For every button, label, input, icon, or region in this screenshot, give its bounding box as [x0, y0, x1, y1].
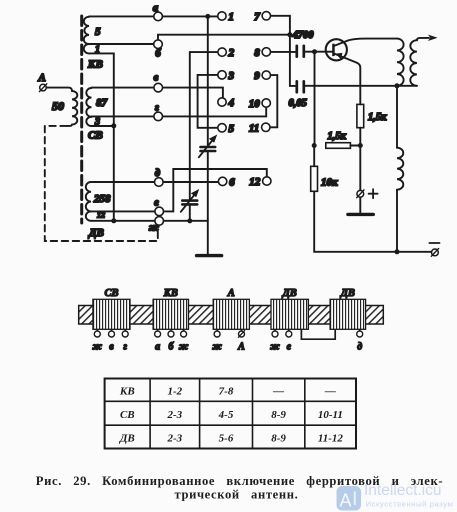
lead д of coil ДВ [357, 329, 363, 352]
svg-text:A: A [340, 491, 352, 511]
antenna terminal A [37, 72, 46, 92]
svg-text:11: 11 [249, 122, 259, 134]
coil SV section 3 [86, 117, 100, 128]
svg-text:5: 5 [229, 123, 235, 135]
wire: C0.05 to transformer bottom rail [305, 85, 417, 87]
switch contact 12 [249, 176, 271, 188]
svg-text:г: г [155, 103, 159, 114]
svg-text:7-8: 7-8 [219, 386, 234, 398]
junction node (397,85.8) [395, 83, 400, 88]
svg-text:трической антенн.: трической антенн. [175, 487, 299, 501]
switch contact а [153, 3, 163, 21]
switching table [105, 379, 356, 449]
choke coil on minus rail [397, 148, 403, 190]
svg-text:1,5к: 1,5к [328, 131, 347, 142]
svg-text:А: А [37, 72, 45, 84]
switch contact б [154, 40, 163, 60]
lead ж of coil А [212, 329, 222, 352]
transformer secondary coil [410, 40, 417, 86]
svg-text:д: д [357, 342, 362, 353]
switch contact д [155, 168, 164, 186]
wire: KV bottom down common vertical [89, 53, 114, 220]
junction node (189.8,220.9) [187, 218, 192, 223]
svg-text:А: А [237, 342, 245, 353]
junction node (314.5,51.7) [312, 49, 317, 54]
switch contact 11 [249, 122, 270, 134]
svg-text:4700: 4700 [292, 30, 315, 41]
svg-text:в: в [154, 73, 159, 84]
switch contact 8 [254, 47, 270, 59]
svg-text:е: е [154, 198, 159, 209]
wire: contact 7 right and down to C 0.05 [271, 16, 296, 86]
switch contact 6 [218, 176, 235, 188]
svg-text:СВ: СВ [104, 288, 118, 299]
svg-text:е: е [287, 342, 292, 353]
wire: DV bottom / contact zh line to ground vertical [91, 220, 208, 222]
svg-text:ДВ: ДВ [88, 227, 104, 239]
capacitor 4700 [292, 30, 315, 57]
svg-text:в: в [109, 342, 114, 353]
svg-text:—: — [272, 386, 284, 398]
svg-text:д: д [155, 168, 160, 179]
svg-text:КВ: КВ [163, 288, 178, 299]
trimmer C1 arrow [199, 135, 217, 158]
switch contact 7 [254, 11, 270, 23]
svg-text:3: 3 [228, 70, 235, 82]
plus terminal with ground [348, 189, 378, 214]
svg-text:11-12: 11-12 [318, 433, 344, 445]
svg-text:СВ: СВ [120, 409, 135, 421]
resistor 10k [311, 166, 338, 191]
minus terminal [429, 243, 439, 256]
wire: 1.5k to emitter vertical [350, 145, 360, 147]
svg-text:12: 12 [249, 176, 261, 188]
svg-text:г: г [123, 342, 127, 353]
switch contact 1 [218, 11, 234, 23]
svg-text:10: 10 [249, 98, 261, 110]
wire: contact a junction down to trimmer C1 [207, 16, 209, 147]
junction node (289.9,34.7) [287, 32, 292, 37]
wire: DV tap to contact e, up to contact 12 [91, 169, 267, 211]
watermark logo [337, 486, 362, 511]
svg-text:0,05: 0,05 [289, 98, 307, 109]
svg-text:КВ: КВ [119, 386, 135, 398]
wire: 10k bottom to minus rail [314, 191, 431, 252]
coil DV section 258 [86, 182, 111, 211]
coil KV section 1 [84, 44, 100, 56]
lead в of coil СВ [109, 329, 115, 352]
choke to minus rail [396, 190, 398, 252]
svg-text:ж: ж [179, 342, 189, 353]
svg-text:А: А [227, 288, 235, 299]
transformer primary coil [397, 39, 404, 86]
dashed link: coil 50 to contact zh (external antenna circuit) [45, 126, 158, 241]
rod coil КВ (winding block) [153, 288, 188, 329]
switch contact 4 [218, 97, 235, 109]
svg-text:7: 7 [254, 11, 260, 23]
lead ж of coil ДВ [270, 329, 280, 352]
svg-text:87: 87 [96, 97, 108, 109]
trimmer C1 lower lead down to ground [207, 151, 209, 254]
resistor 1.5k emitter [357, 104, 387, 127]
svg-text:5-6: 5-6 [219, 433, 234, 445]
svg-text:4: 4 [228, 97, 235, 109]
switch contact 5 [218, 123, 235, 135]
switch contact 3 [218, 70, 235, 82]
lead б of coil КВ [168, 329, 175, 352]
rod coil ДВ (winding block) [271, 288, 308, 329]
rod coil А (winding block) [213, 288, 249, 329]
switch contact 9 [254, 70, 270, 82]
svg-text:258: 258 [93, 193, 111, 205]
junction node (397,251.8) [395, 249, 400, 254]
wire: SV tap to contact g, to contact 10 [92, 107, 267, 116]
junction node (360.3,145.5) [358, 143, 363, 148]
svg-text:КВ: КВ [87, 59, 103, 71]
wire: DV top to contact d and 6 [91, 181, 218, 183]
svg-text:ж: ж [93, 342, 103, 353]
transistor VT (PNP) [326, 39, 397, 105]
lead г of coil СВ [122, 329, 128, 352]
switch contact г [154, 103, 163, 121]
trimmer C2 arrow [181, 189, 199, 212]
trimmer C2 lower lead [189, 204, 191, 221]
ferrite rod bar (hatched) [79, 306, 384, 325]
base bias vertical wire [314, 52, 316, 146]
resistor 1.5k horizontal [326, 131, 351, 148]
wire: contact 2 to trimmer C2 vertical [190, 52, 218, 201]
svg-text:ж: ж [270, 342, 280, 353]
switch contact е [154, 198, 163, 216]
svg-text:1,5к: 1,5к [368, 112, 387, 123]
lead е of coil ДВ [286, 329, 292, 352]
coil KV section 5 [84, 17, 101, 44]
wire: contacts 3-5 link [198, 75, 218, 128]
wire to 10k resistor [313, 146, 315, 167]
svg-text:1: 1 [228, 11, 234, 23]
svg-text:2-3: 2-3 [166, 409, 182, 421]
secondary top to output arrow [417, 35, 438, 41]
junction node (113.8,220.8) [111, 218, 116, 223]
wire: KV tap to contact b [89, 43, 154, 45]
rod coil СВ (winding block) [93, 288, 130, 329]
svg-text:5: 5 [95, 26, 101, 38]
svg-text:СВ: СВ [88, 130, 103, 142]
junction node (113.8,125.8) [111, 123, 116, 128]
svg-text:2: 2 [228, 47, 235, 59]
svg-text:Искусственный разум: Искусственный разум [366, 500, 454, 509]
svg-text:9: 9 [254, 70, 260, 82]
switch contact 2 [218, 47, 235, 59]
svg-text:а: а [153, 3, 158, 14]
svg-text:б: б [155, 49, 161, 60]
ground bar under trimmer line [197, 254, 222, 257]
trimmer capacitor C2 plates [182, 199, 197, 202]
wire: SV top to contact v, to contact 4 [92, 88, 223, 98]
svg-text:ж: ж [149, 223, 159, 234]
svg-text:а: а [155, 342, 160, 353]
coil 50 (external antenna coupling) [52, 91, 77, 126]
wire: antenna terminal to coil 50 [46, 88, 72, 91]
wire: C4700 to transistor base [305, 51, 332, 53]
junction node (207.8,16.4) [205, 14, 210, 19]
svg-text:—: — [324, 386, 336, 398]
lead ж of coil СВ [93, 329, 103, 352]
svg-text:8-9: 8-9 [271, 433, 286, 445]
wire: KV top to contact a and 1 [89, 15, 218, 17]
svg-text:8: 8 [254, 47, 260, 59]
lead а of coil КВ [155, 329, 161, 352]
svg-text:50: 50 [52, 99, 64, 113]
switch contact в [154, 73, 163, 92]
switch contact 10 [249, 98, 271, 110]
coil SV section 87 [86, 88, 107, 117]
rod coil ДВ (winding block) [330, 288, 366, 329]
ferrite rod core (dashed) [80, 16, 83, 223]
svg-text:ДВ: ДВ [119, 433, 135, 445]
wire: emitter resistor to junction and plus terminal [359, 128, 361, 191]
svg-text:8-9: 8-9 [271, 409, 286, 421]
svg-text:6: 6 [229, 176, 235, 188]
junction node (314.2,145.5) [312, 143, 317, 148]
series link between DV coils [301, 329, 335, 339]
capacitor 0.05 [289, 81, 307, 109]
svg-text:ж: ж [212, 342, 222, 353]
coil DV section 12 [86, 211, 105, 221]
svg-text:10-11: 10-11 [318, 409, 343, 421]
switch contact ж [149, 217, 164, 234]
svg-text:10к: 10к [321, 177, 338, 189]
trimmer capacitor C1 plates [201, 146, 216, 149]
wire: contact b up and right to junction (7 / C4700 line) [158, 35, 290, 41]
svg-text:4-5: 4-5 [218, 409, 234, 421]
svg-text:2-3: 2-3 [166, 433, 182, 445]
lead А of coil А [237, 329, 245, 352]
wire: SV bottom to common vertical [92, 125, 114, 127]
svg-text:ДВ: ДВ [340, 288, 355, 299]
svg-text:ДВ: ДВ [282, 288, 297, 299]
lead ж of coil КВ [179, 329, 189, 352]
wire: contacts 9-11 link [270, 75, 277, 127]
svg-text:1-2: 1-2 [167, 386, 182, 398]
wire: contact 8 to C 4700 [271, 51, 296, 53]
primary bottom lead [396, 86, 398, 148]
svg-text:Рис. 29. Комбинированное включ: Рис. 29. Комбинированное включение ферри… [36, 474, 443, 488]
